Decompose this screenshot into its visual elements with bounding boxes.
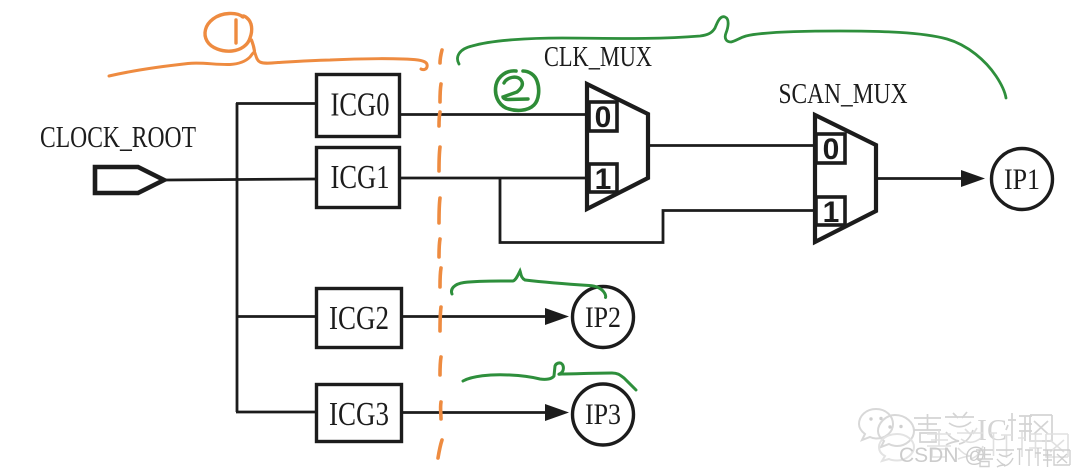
clock root input port symbol — [95, 167, 164, 193]
mux SCAN_MUX body — [815, 115, 876, 242]
svg-text:IP3: IP3 — [585, 398, 621, 431]
arrowhead to IP2 — [545, 308, 569, 325]
arrowhead to IP1 — [961, 170, 985, 187]
annotation green brace over muxes — [458, 17, 1006, 98]
svg-text:ICG0: ICG0 — [331, 87, 390, 124]
svg-text:ICG3: ICG3 — [329, 396, 389, 433]
wire trunk to ICG3 — [236, 411, 315, 414]
svg-text:1: 1 — [823, 196, 840, 229]
wire trunk vertical — [236, 103, 239, 412]
wire trunk to ICG0 — [236, 102, 315, 105]
svg-text:0: 0 — [595, 101, 612, 134]
svg-text:IP1: IP1 — [1004, 163, 1040, 196]
wire ICG1 to CLK_MUX input 1 — [400, 177, 588, 180]
box ICG1 — [317, 148, 400, 208]
arrowhead to IP3 — [545, 404, 569, 421]
annotation green underline over IP2 — [452, 271, 606, 298]
wire trunk to ICG2 — [236, 315, 315, 318]
wire SCAN_MUX output to IP1 — [877, 177, 963, 180]
wire CLK_MUX output to SCAN_MUX input 0 — [649, 144, 814, 147]
wire clock root to ICG1 — [166, 179, 315, 180]
box ICG3 — [317, 385, 402, 442]
mux CLK_MUX body — [587, 84, 648, 209]
wire feedback ICG1 to SCAN_MUX input 1 — [500, 178, 814, 243]
output IP1 circle — [992, 149, 1053, 210]
annotation orange dashed separator — [438, 50, 442, 458]
svg-text:SCAN_MUX: SCAN_MUX — [779, 78, 908, 110]
svg-text:0: 0 — [823, 133, 840, 166]
svg-text:ICG1: ICG1 — [331, 159, 390, 196]
annotation green circled 2 — [495, 71, 538, 111]
watermark logo bubbles — [859, 409, 914, 447]
svg-text:CSDN @: CSDN @ — [899, 444, 986, 467]
svg-text:IC: IC — [977, 412, 1007, 447]
mux CLK_MUX pin 0 box — [589, 102, 617, 131]
svg-text:1: 1 — [595, 163, 612, 196]
wire ICG3 to IP3 — [402, 411, 545, 414]
watermark text row 1 — [914, 412, 974, 445]
wire ICG0 to CLK_MUX input 0 — [400, 113, 588, 116]
output IP2 circle — [573, 287, 634, 348]
svg-text:ICG2: ICG2 — [329, 300, 389, 337]
mux CLK_MUX pin 1 box — [589, 164, 617, 192]
mux SCAN_MUX pin 0 box — [816, 134, 845, 163]
annotation orange underline 1 — [109, 52, 427, 76]
wire ICG2 to IP2 — [402, 315, 545, 318]
svg-text:CLK_MUX: CLK_MUX — [544, 41, 652, 73]
annotation green underline over IP3 — [463, 363, 636, 390]
mux SCAN_MUX pin 1 box — [816, 197, 845, 225]
svg-text:IP2: IP2 — [585, 301, 621, 334]
box ICG0 — [317, 75, 400, 137]
watermark text row 2 — [927, 428, 1068, 459]
annotation orange circled 1 — [205, 13, 252, 51]
box ICG2 — [317, 289, 402, 348]
svg-text:CLOCK_ROOT: CLOCK_ROOT — [40, 119, 196, 154]
output IP3 circle — [573, 384, 634, 445]
watermark logo bubble ghost — [879, 434, 914, 461]
